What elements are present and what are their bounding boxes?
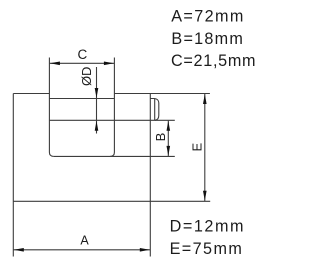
arrow E top: [203, 94, 207, 104]
arrow A left: [14, 248, 24, 252]
cylinder protrusion: [150, 99, 159, 121]
arrow E bottom: [203, 191, 207, 201]
svg-text:E=75mm: E=75mm: [170, 240, 244, 258]
cylinder bottom line / B extension: [49, 119, 174, 121]
dim line D: [96, 67, 98, 134]
svg-text:C=21,5mm: C=21,5mm: [171, 52, 256, 70]
svg-text:B: B: [153, 133, 168, 142]
svg-text:A: A: [80, 233, 89, 247]
dim line A: [13, 249, 150, 251]
body bottom edge / E extension: [13, 200, 210, 202]
arrow D lower (points up, tip at bottom cylinder line): [95, 121, 99, 131]
body right edge / A extension: [149, 94, 151, 257]
arrow D upper (points down, tip at top cylinder line): [95, 88, 99, 98]
block bottom edge / B extension: [54, 155, 175, 157]
cylinder top line: [49, 98, 114, 100]
svg-text:B=18mm: B=18mm: [171, 30, 244, 48]
arrow C left: [50, 62, 60, 66]
svg-text:E: E: [190, 142, 205, 151]
arrow C right: [104, 62, 114, 66]
arrow A right: [140, 248, 150, 252]
svg-text:D=12mm: D=12mm: [170, 218, 245, 236]
svg-text:C: C: [78, 47, 88, 62]
dim line E: [204, 94, 206, 202]
svg-text:ØD: ØD: [79, 67, 94, 87]
block right edge / C extension: [110, 58, 114, 157]
dim line B: [167, 120, 169, 156]
svg-text:A=72mm: A=72mm: [171, 8, 245, 26]
arrow B bottom: [167, 146, 171, 156]
body left edge / A extension: [12, 94, 14, 257]
dim line C: [49, 62, 114, 64]
body top edge: [13, 93, 210, 95]
block left edge / C extension: [49, 58, 53, 157]
arrow B top: [167, 121, 171, 131]
